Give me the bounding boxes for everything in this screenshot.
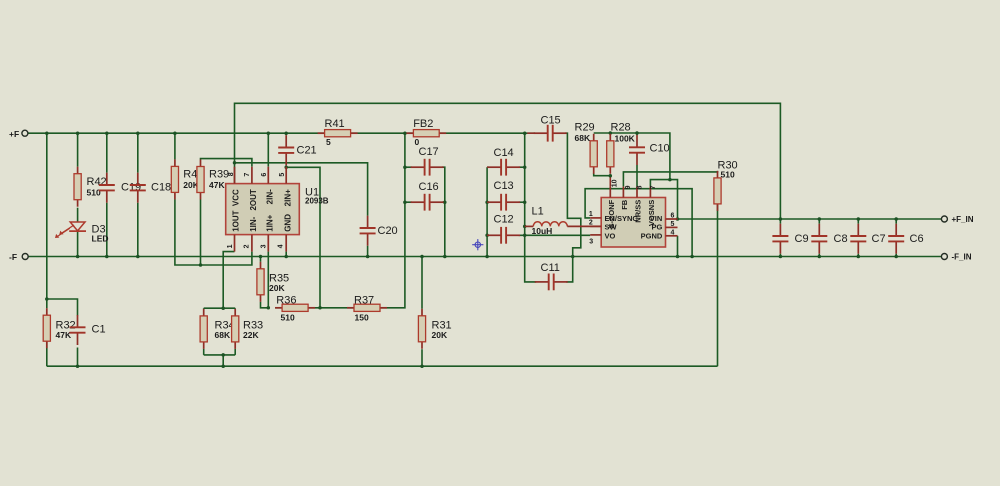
svg-text:C20: C20 — [378, 225, 398, 237]
svg-text:VCC: VCC — [232, 189, 241, 206]
wire +F_IN rail — [678, 218, 942, 220]
wire R34/R33 top tie — [204, 307, 236, 309]
junction 1IN- R39 — [199, 263, 203, 267]
wire C16 right — [442, 201, 445, 203]
wire R32 bottom — [46, 342, 48, 366]
junction -F C16/C17 — [443, 255, 447, 259]
svg-text:L1: L1 — [532, 206, 544, 218]
junction +F C18 — [136, 131, 140, 135]
capacitor C19 — [99, 173, 115, 203]
junction +F C21 — [284, 131, 288, 135]
wire R34/R33 bottom tie — [204, 354, 236, 356]
svg-text:R29: R29 — [575, 122, 595, 134]
junction C16 right — [443, 200, 447, 204]
resistor R36 — [275, 304, 315, 311]
svg-text:47K: 47K — [209, 180, 225, 190]
svg-text:FB2: FB2 — [413, 118, 433, 130]
svg-text:C8: C8 — [834, 233, 848, 245]
junction C13 right — [523, 200, 527, 204]
junction -F PGND — [676, 255, 680, 259]
resistor R31 — [418, 309, 425, 349]
wire R39 top to 2OUT — [201, 159, 252, 167]
svg-text:7: 7 — [244, 173, 251, 177]
svg-text:510: 510 — [721, 170, 735, 180]
svg-text:6: 6 — [671, 212, 675, 219]
wire FB2 out — [439, 132, 525, 134]
svg-text:R4: R4 — [183, 168, 197, 180]
svg-text:510: 510 — [87, 188, 101, 198]
capacitor C18 — [130, 173, 146, 203]
junction C12 left — [485, 234, 489, 238]
wire R41 to FB2 — [351, 132, 414, 134]
wire 2IN+ feedback — [286, 167, 320, 307]
wire C8 top — [818, 219, 820, 224]
sheet origin marker — [472, 239, 483, 250]
svg-text:R28: R28 — [611, 122, 631, 134]
svg-text:2OUT: 2OUT — [249, 189, 258, 210]
svg-text:68K: 68K — [215, 330, 231, 340]
svg-text:6: 6 — [261, 173, 268, 177]
wire GND down — [285, 252, 287, 257]
junction bottom R34/R33 — [221, 364, 225, 368]
wire R37 to FB2 node — [380, 133, 405, 308]
wire R31 top — [421, 257, 423, 309]
wire pin7 to VIN — [650, 180, 677, 219]
junction VCC — [233, 161, 237, 165]
wire C21 bottom — [285, 165, 287, 167]
wire R35 top — [260, 257, 262, 262]
svg-text:150: 150 — [355, 313, 369, 323]
junction -F D3 — [76, 255, 80, 259]
junction R41/FB2 — [403, 131, 407, 135]
wire pin10 stub upper — [609, 176, 611, 187]
svg-text:1IN+: 1IN+ — [265, 214, 274, 231]
wire R33 top — [234, 307, 236, 310]
wire C17 left — [405, 166, 412, 168]
svg-text:R39: R39 — [209, 168, 229, 180]
wire R42 top — [77, 133, 79, 167]
ferrite bead FB2 — [406, 130, 446, 137]
wire C14 right — [519, 166, 525, 168]
svg-text:510: 510 — [281, 313, 295, 323]
wire R4 top — [174, 133, 176, 159]
wire R35 bottom — [261, 302, 269, 308]
op-amp U1 2093B — [226, 167, 300, 252]
wire R32 column — [46, 133, 48, 308]
svg-text:NR/SS: NR/SS — [634, 200, 643, 223]
junction L1 left — [523, 225, 527, 229]
wire pin9 to R30 — [623, 171, 717, 187]
terminal -F_IN — [941, 254, 947, 260]
junction -F C19 — [105, 255, 109, 259]
junction -F C9 — [779, 255, 783, 259]
capacitor C14 — [487, 159, 520, 176]
wire C17 right column — [442, 167, 445, 256]
svg-text:20K: 20K — [269, 283, 285, 293]
junction R28 top — [609, 131, 613, 135]
wire R34 top — [203, 307, 205, 310]
wire R34 bottom — [203, 349, 205, 355]
svg-text:9: 9 — [625, 185, 632, 189]
junction C10 top — [635, 131, 639, 135]
wire VO net — [519, 234, 591, 236]
wire C10 bottom to pin8 — [636, 165, 638, 187]
svg-text:-F_IN: -F_IN — [952, 253, 972, 262]
wire R31 bottom — [421, 349, 423, 366]
resistor R28 — [607, 134, 614, 174]
svg-text:3: 3 — [589, 238, 593, 245]
inductor L1 — [525, 222, 602, 227]
wire PGND down — [677, 236, 679, 257]
svg-text:10uH: 10uH — [532, 226, 553, 236]
wire C6 top — [895, 219, 897, 224]
wire C21 top — [285, 133, 287, 135]
wire C1 bottom — [77, 348, 79, 367]
wire R36 left — [275, 307, 282, 309]
capacitor C7 — [850, 224, 866, 254]
junction +F_IN C8 — [818, 217, 822, 221]
wire C16 left — [405, 201, 412, 203]
junction VIN pin6 — [676, 217, 680, 221]
junction VIN column — [668, 178, 672, 182]
capacitor C17 — [411, 159, 444, 176]
svg-text:C16: C16 — [419, 181, 439, 193]
junction -F filter caps — [485, 255, 489, 259]
wire R39 bottom — [200, 200, 202, 266]
wire C13 right — [519, 201, 525, 203]
wire R34/R33 to bottom rail — [222, 355, 224, 366]
svg-text:2IN-: 2IN- — [265, 189, 274, 204]
junction -F C20 — [366, 255, 370, 259]
resistor R29 — [590, 134, 597, 174]
capacitor C16 — [411, 194, 444, 211]
svg-text:4: 4 — [671, 229, 675, 236]
svg-text:C12: C12 — [494, 213, 514, 225]
svg-text:C17: C17 — [419, 146, 439, 158]
capacitor C8 — [811, 224, 827, 254]
resistor R30 — [714, 171, 721, 211]
wire R36 to R37 — [308, 307, 354, 309]
svg-text:C14: C14 — [494, 147, 514, 159]
capacitor C12 — [487, 227, 520, 244]
wire bottom sense rail — [47, 365, 718, 367]
svg-text:2: 2 — [589, 219, 593, 226]
wire C9 bottom — [779, 254, 781, 257]
junction +F_IN C7 — [857, 217, 861, 221]
junction FB2 out column — [523, 131, 527, 135]
capacitor C11 — [535, 274, 568, 291]
wire top run VCC to +F_IN — [235, 103, 781, 219]
wire C18 bottom — [137, 203, 139, 257]
svg-text:1: 1 — [227, 244, 234, 248]
wire filter cap left column — [486, 167, 488, 256]
svg-text:2: 2 — [244, 244, 251, 248]
wire C19 bottom — [106, 203, 108, 257]
junction C16 left — [403, 200, 407, 204]
wire C14 left — [487, 166, 489, 168]
wire R42 to D3 — [77, 208, 79, 223]
terminal -F — [22, 254, 28, 260]
junction R34/R33 bottom tie — [221, 353, 225, 357]
svg-text:10: 10 — [611, 179, 618, 187]
junction -F GND U1 — [284, 255, 288, 259]
svg-text:1: 1 — [589, 211, 593, 218]
capacitor C6 — [888, 224, 904, 254]
junction +F_IN C6 — [894, 217, 898, 221]
svg-text:R36: R36 — [276, 295, 296, 307]
svg-text:C6: C6 — [910, 233, 924, 245]
junction -F C7 — [857, 255, 861, 259]
wire C19 top — [106, 133, 108, 173]
svg-text:R41: R41 — [325, 118, 345, 130]
wire -F rail — [28, 256, 941, 258]
svg-text:R42: R42 — [87, 176, 107, 188]
svg-text:3: 3 — [260, 244, 267, 248]
svg-text:C10: C10 — [650, 143, 670, 155]
junction -F C18 — [136, 255, 140, 259]
svg-text:20K: 20K — [432, 330, 448, 340]
resistor R39 — [197, 160, 204, 200]
svg-text:68K: 68K — [575, 133, 591, 143]
svg-text:PGND: PGND — [641, 232, 663, 241]
wire D3 cathode to -F — [77, 231, 79, 256]
wire C12 left — [487, 234, 489, 236]
svg-text:C21: C21 — [297, 145, 317, 157]
svg-text:+F: +F — [9, 129, 19, 139]
svg-text:8: 8 — [228, 172, 235, 176]
junction bottom C1 — [76, 364, 80, 368]
junction -F R35 — [259, 255, 263, 259]
junction R32/C1 top — [45, 297, 49, 301]
junction R36/R37 2IN+ — [318, 306, 322, 310]
wire C8 bottom — [818, 254, 820, 257]
svg-text:C18: C18 — [151, 182, 171, 194]
LED D3 — [55, 222, 86, 238]
wire C6 bottom — [895, 254, 897, 257]
junction C13 left — [485, 200, 489, 204]
terminal +F_IN — [941, 216, 947, 222]
capacitor C21 — [278, 135, 294, 165]
regulator U2 — [590, 187, 677, 247]
resistor R34 — [200, 309, 207, 349]
svg-text:5: 5 — [326, 137, 331, 147]
wire C15 right to -F — [565, 133, 581, 256]
svg-text:VOSNS: VOSNS — [647, 200, 656, 226]
wire C11 right — [566, 257, 573, 282]
junction pin10 divider — [609, 174, 613, 178]
wire R33 bottom — [234, 349, 236, 355]
junction +F R32col — [45, 131, 49, 135]
junction R35/R36 1IN+ — [267, 306, 271, 310]
resistor R37 — [347, 304, 387, 311]
svg-text:C1: C1 — [92, 324, 106, 336]
resistor R35 — [257, 262, 264, 302]
junction -F EN loop — [690, 255, 694, 259]
svg-text:S-CONF: S-CONF — [607, 199, 616, 228]
wire C15 left — [525, 132, 536, 134]
resistor R42 — [74, 167, 81, 207]
junction C12/VO — [523, 234, 527, 238]
junction +F C19 — [105, 131, 109, 135]
svg-text:7: 7 — [650, 185, 657, 189]
wire VCC to C20 — [235, 163, 368, 216]
wire C9 top — [779, 219, 781, 224]
junction +F_IN C9 — [779, 217, 783, 221]
svg-text:-F: -F — [9, 252, 17, 262]
svg-text:22K: 22K — [243, 330, 259, 340]
svg-text:R37: R37 — [354, 295, 374, 307]
svg-text:5: 5 — [671, 221, 675, 228]
wire C10 top — [636, 133, 638, 135]
junction +F R4 — [173, 131, 177, 135]
terminal +F — [22, 130, 28, 136]
wire VIN filter top — [594, 133, 670, 180]
wire FB divider to pin10 — [594, 173, 611, 175]
svg-text:LED: LED — [92, 234, 109, 244]
wire L1 input column — [525, 133, 537, 282]
junction 2IN+ C21 — [284, 166, 288, 170]
junction bottom R31 — [420, 364, 424, 368]
resistor R33 — [232, 309, 239, 349]
wire 1OUT to R34/R33 — [223, 252, 234, 309]
svg-text:C13: C13 — [494, 180, 514, 192]
junction -F C15/C11 — [571, 255, 575, 259]
svg-text:4: 4 — [278, 244, 285, 248]
svg-text:8: 8 — [636, 185, 643, 189]
wire C7 top — [857, 219, 859, 224]
junction -F C8 — [818, 255, 822, 259]
wire C1 top link — [47, 299, 78, 316]
svg-text:C11: C11 — [541, 262, 560, 274]
capacitor C10 — [629, 135, 645, 165]
junction +F 2IN- — [267, 131, 271, 135]
svg-text:2IN+: 2IN+ — [283, 189, 292, 206]
capacitor C1 — [70, 315, 86, 345]
wire C15 left lead — [527, 132, 535, 134]
resistor R32 — [43, 308, 50, 348]
junction -F R31 — [420, 255, 424, 259]
junction +F R42 — [76, 131, 80, 135]
capacitor C13 — [487, 194, 520, 211]
svg-text:1IN-: 1IN- — [249, 216, 258, 231]
junction -F C6 — [894, 255, 898, 259]
junction C17 left — [403, 165, 407, 169]
svg-text:100K: 100K — [615, 134, 636, 144]
svg-text:2093B: 2093B — [305, 197, 329, 206]
capacitor C9 — [772, 224, 788, 254]
capacitor C20 — [360, 216, 376, 246]
wire R30 bottom — [717, 203, 719, 366]
svg-text:C9: C9 — [795, 233, 809, 245]
junction R34/R33 top tie — [221, 306, 225, 310]
wire C20 bottom — [367, 246, 369, 257]
resistor R4 — [171, 159, 178, 199]
wire C18 top — [137, 133, 139, 173]
svg-text:1OUT: 1OUT — [232, 210, 241, 231]
wire +F rail — [28, 132, 324, 134]
svg-text:VO: VO — [605, 232, 616, 241]
resistor R41 — [318, 130, 358, 137]
svg-text:5: 5 — [279, 173, 286, 177]
wire 1IN+ down — [267, 252, 269, 308]
capacitor C15 — [534, 125, 567, 142]
svg-text:GND: GND — [283, 214, 292, 232]
wire C13 left — [487, 201, 489, 203]
wire 2IN- to +F — [267, 133, 269, 166]
svg-text:C7: C7 — [872, 233, 886, 245]
svg-text:C15: C15 — [541, 115, 561, 127]
wire 1IN- net — [175, 199, 252, 265]
junction C14 right — [523, 165, 527, 169]
svg-text:+F_IN: +F_IN — [952, 215, 974, 224]
wire EN/SYNC loop — [585, 189, 692, 257]
svg-text:47K: 47K — [56, 330, 72, 340]
wire C7 bottom — [857, 254, 859, 257]
svg-text:FB: FB — [620, 199, 629, 210]
